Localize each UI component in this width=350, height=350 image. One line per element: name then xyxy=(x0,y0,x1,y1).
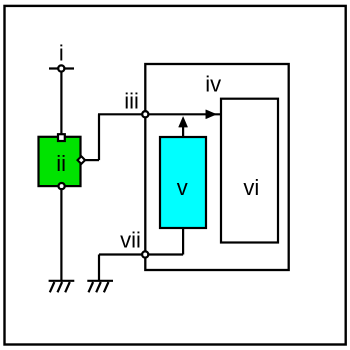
wire block v top stub (up arrow stem) xyxy=(182,126,184,137)
wire node vii down to ground xyxy=(98,255,100,281)
block ii (green rectangle) xyxy=(39,137,81,186)
wire node vii horizontal xyxy=(99,253,183,255)
node i xyxy=(58,65,64,71)
block iv (outer subsystem rectangle) xyxy=(145,64,288,270)
arrowhead into block vi xyxy=(206,110,217,119)
wire node iii horizontal into block vi xyxy=(98,113,221,115)
wire node i to block ii top xyxy=(60,69,62,138)
block ii top port (square) xyxy=(58,134,65,141)
svg-text:i: i xyxy=(59,41,64,66)
svg-text:iii: iii xyxy=(124,89,139,114)
wire block v bottom stub xyxy=(182,228,184,255)
block ii right port (diamond) xyxy=(78,156,86,164)
svg-text:vii: vii xyxy=(120,227,141,252)
arrowhead up from block v xyxy=(179,117,188,128)
svg-text:vi: vi xyxy=(243,175,259,200)
block ii bottom port (circle) xyxy=(59,183,65,189)
svg-text:v: v xyxy=(177,175,188,200)
svg-text:iv: iv xyxy=(205,71,221,96)
ground 1 xyxy=(49,281,75,293)
wire block ii bottom to ground xyxy=(60,186,62,281)
svg-text:ii: ii xyxy=(56,151,66,176)
wire jog vertical up to node iii level xyxy=(98,114,100,160)
node vii xyxy=(142,251,148,257)
wire block ii right port to jog xyxy=(84,159,99,161)
ground 2 xyxy=(87,281,113,293)
block vi (white rectangle) xyxy=(221,99,278,243)
block v (cyan rectangle) xyxy=(160,137,206,228)
node iii xyxy=(142,111,148,117)
node i terminal tick xyxy=(49,67,74,69)
